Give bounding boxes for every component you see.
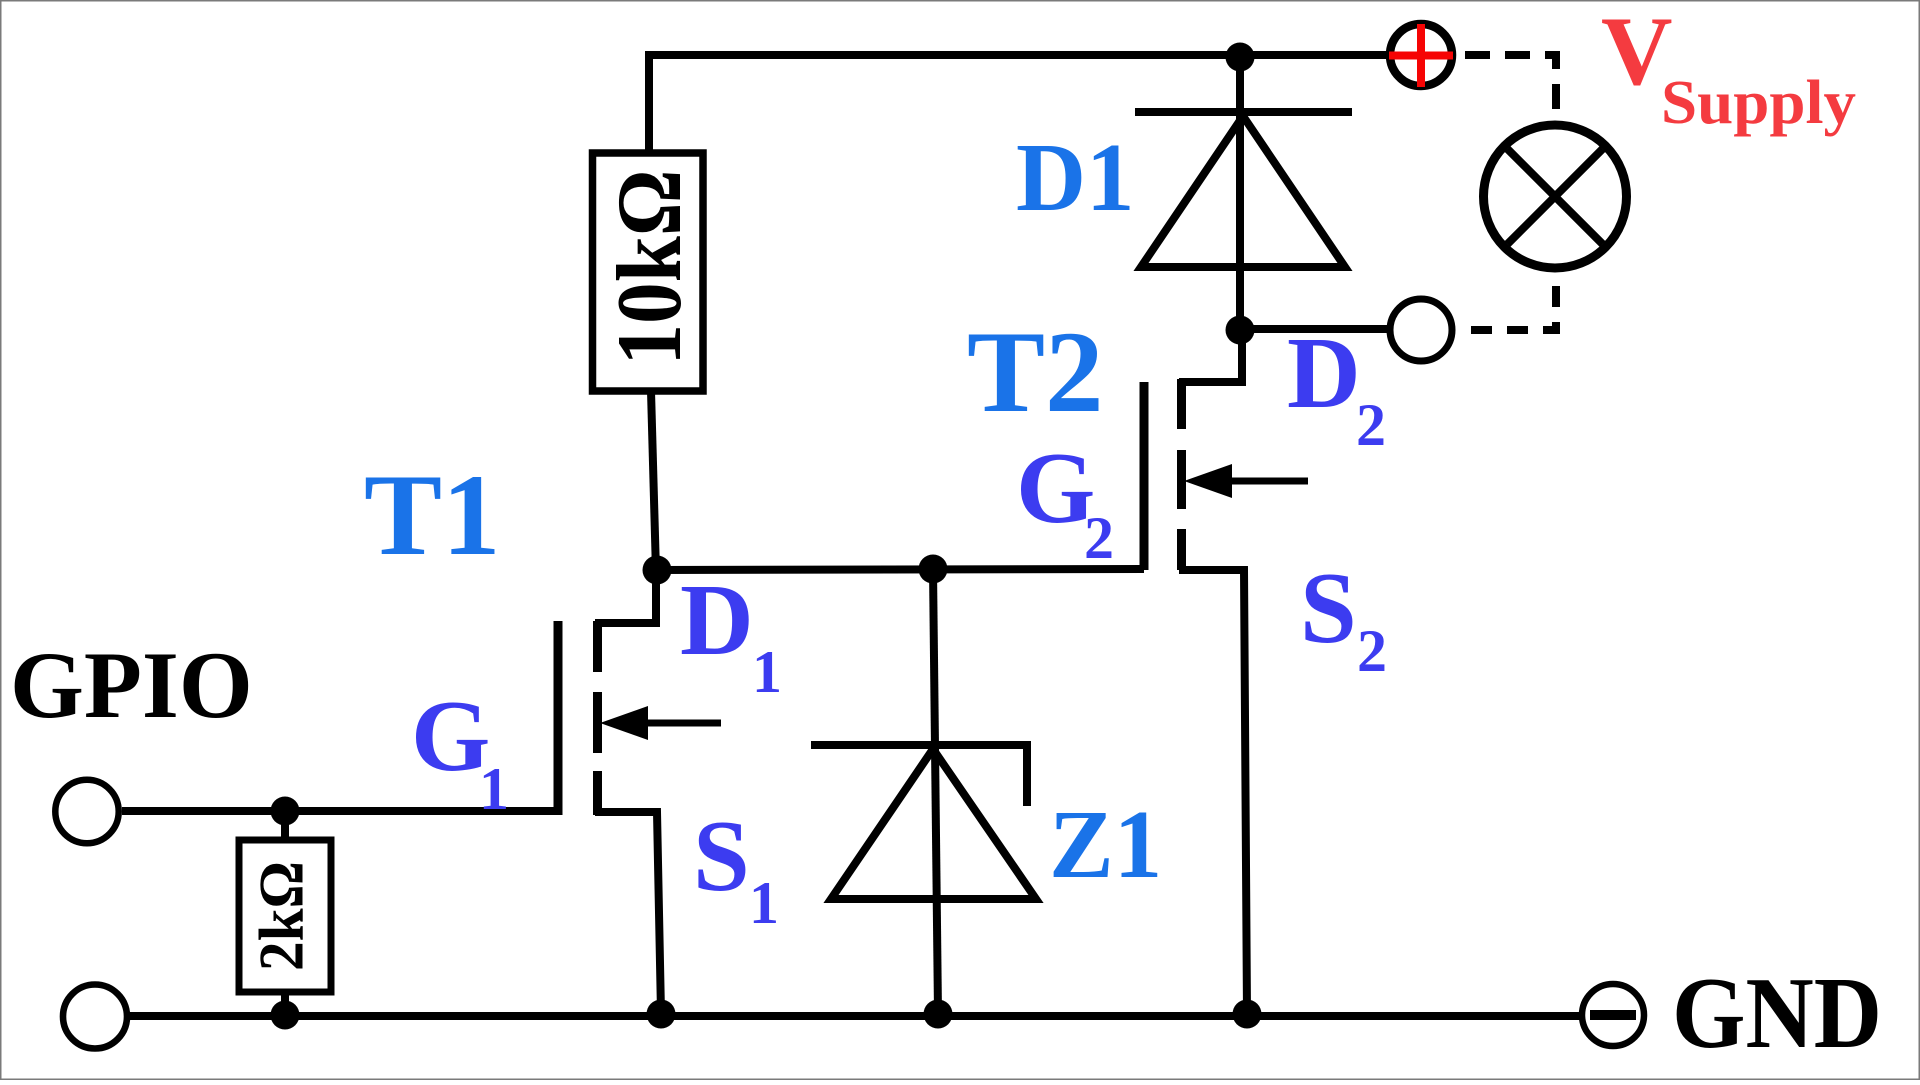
svg-text:1: 1 (479, 756, 509, 822)
transistor T2 drain lead (1179, 328, 1242, 382)
terminal GND (1582, 984, 1644, 1046)
transistor T2 gate bar (1140, 382, 1149, 570)
svg-text:2: 2 (1356, 392, 1386, 458)
dashed wire from lamp bottom (1456, 272, 1556, 330)
node dot 2k bottom (271, 1001, 300, 1030)
wire top rail (649, 51, 1387, 59)
terminal GPIO bottom (63, 985, 127, 1049)
wire ground rail (129, 1012, 1580, 1020)
svg-text:S: S (693, 800, 750, 913)
diode D1 cathode bar (1135, 108, 1352, 116)
svg-text:1: 1 (749, 870, 779, 936)
zener Z1 wire (933, 569, 938, 1013)
resistor 10k box (593, 153, 704, 391)
zener Z1 triangle (831, 749, 1036, 899)
transistor T1 arrow (640, 720, 721, 727)
svg-text:2: 2 (1084, 505, 1114, 571)
svg-text:1: 1 (752, 639, 782, 705)
wire GPIO to gate (122, 807, 558, 815)
svg-text:GND: GND (1672, 957, 1882, 1070)
transistor T1 channel (593, 621, 602, 815)
zener Z1 cathode bar (811, 745, 1027, 806)
transistor T2 arrow (1226, 478, 1308, 485)
svg-text:T2: T2 (967, 308, 1104, 437)
transistor T1 drain lead (595, 568, 656, 623)
wire node to lamp terminal (1240, 325, 1387, 333)
node dot top (1226, 43, 1255, 72)
terminal V supply plus (1390, 24, 1452, 86)
wire 2k bottom lead (281, 990, 289, 1016)
node dot T1 drain (643, 556, 672, 585)
node dot S2 ground (1233, 1000, 1262, 1029)
svg-text:GPIO: GPIO (10, 632, 253, 738)
wire 2k top lead (281, 811, 289, 842)
svg-text:S: S (1300, 552, 1357, 665)
node dot S1 ground (647, 1000, 676, 1029)
diode D1 triangle (1141, 116, 1345, 267)
wire resistor bottom lead (651, 391, 656, 572)
svg-text:10kΩ: 10kΩ (598, 170, 700, 366)
node dot zener ground (924, 1000, 953, 1029)
svg-text:2: 2 (1357, 618, 1387, 684)
transistor T2 source lead (1179, 570, 1247, 1013)
svg-text:D: D (680, 564, 754, 677)
transistor T2 channel (1177, 379, 1186, 570)
node dot D1 bottom (1226, 316, 1255, 345)
node dot zener top (919, 555, 948, 584)
svg-text:Supply: Supply (1661, 69, 1856, 137)
svg-text:T1: T1 (364, 451, 501, 580)
svg-text:D: D (1287, 317, 1361, 430)
resistor 2k box (239, 840, 331, 992)
svg-text:Z1: Z1 (1049, 791, 1162, 898)
wire mid node rail (655, 569, 1144, 570)
diode D1 wire (1236, 57, 1244, 330)
node dot GPIO junction (271, 797, 300, 826)
wire resistor top lead (645, 51, 653, 153)
dashed wire to lamp top (1455, 55, 1556, 122)
terminal GPIO top (55, 780, 118, 843)
svg-text:D1: D1 (1016, 124, 1135, 231)
transistor T1 source lead (595, 812, 661, 1013)
lamp L1 (1484, 125, 1627, 268)
svg-text:2kΩ: 2kΩ (247, 861, 317, 971)
terminal lamp return (1390, 299, 1452, 361)
transistor T1 gate bar (554, 621, 563, 815)
